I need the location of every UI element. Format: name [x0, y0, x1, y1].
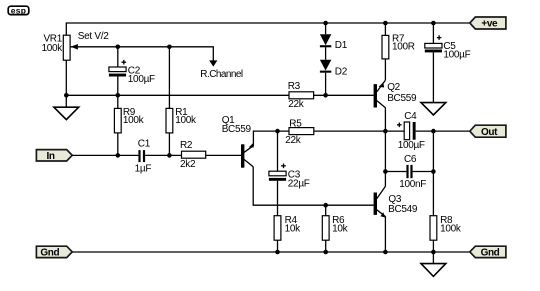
svg-text:BC549: BC549: [388, 204, 418, 215]
svg-text:R3: R3: [288, 81, 301, 92]
svg-text:10k: 10k: [332, 224, 349, 235]
diode D1: [320, 23, 348, 51]
node: C5 top on +ve rail: [431, 21, 436, 26]
svg-text:100k: 100k: [175, 115, 197, 126]
resistor R7: [382, 23, 415, 80]
svg-text:100nF: 100nF: [399, 179, 426, 190]
svg-text:Gnd: Gnd: [481, 247, 500, 258]
node: R1 bottom on input line: [167, 153, 172, 158]
wire: Q3 emitter to ground rail: [384, 216, 386, 252]
svg-text:esp: esp: [11, 5, 27, 15]
resistor R1: [166, 47, 197, 156]
svg-text:C6: C6: [404, 154, 417, 165]
node: R6 bottom on ground rail: [323, 250, 328, 255]
svg-text:C4: C4: [404, 111, 417, 122]
ground (below C5): [421, 103, 446, 115]
node: Q3 emitter on ground rail: [383, 250, 388, 255]
ground (below VR1): [54, 95, 79, 119]
svg-text:100k: 100k: [440, 224, 462, 235]
node: R9 bottom on input line: [116, 153, 121, 158]
node: R4 bottom on ground rail: [275, 250, 280, 255]
svg-text:100k: 100k: [123, 115, 145, 126]
terminal Out: [470, 125, 506, 138]
wire: bias line (R3 to Q2 base): [314, 94, 374, 96]
svg-text:100µF: 100µF: [398, 140, 425, 151]
node: C3 top junction: [275, 129, 280, 134]
resistor R5: [285, 118, 404, 146]
resistor R4: [274, 205, 301, 252]
node: R8 bottom on ground rail: [431, 250, 436, 255]
svg-text:1µF: 1µF: [135, 163, 152, 174]
capacitor C2: [109, 47, 155, 96]
svg-text:BC559: BC559: [222, 124, 252, 135]
wire: Q1 emitter riser: [253, 131, 289, 146]
node: wiper / C2 junction: [116, 45, 121, 50]
capacitor C5: [425, 23, 471, 103]
wire: bias line (left of R3): [66, 94, 289, 96]
resistor R6: [322, 205, 348, 252]
terminal +ve: [470, 17, 506, 30]
transistor Q2: [374, 80, 417, 108]
svg-text:R2: R2: [180, 140, 193, 151]
node: R9 top junction: [116, 93, 121, 98]
resistor R8: [430, 215, 462, 252]
terminal Gnd (right): [470, 246, 506, 258]
svg-text:100R: 100R: [392, 41, 415, 52]
svg-text:Q2: Q2: [387, 82, 400, 93]
ESP logo: [8, 5, 29, 15]
node: wiper / R1 junction: [167, 45, 172, 50]
resistor R3: [288, 81, 314, 110]
terminal In: [36, 150, 72, 162]
node: VR1 bottom junction: [64, 93, 69, 98]
node: R7 top on +ve rail: [383, 21, 388, 26]
svg-text:Out: Out: [481, 127, 498, 138]
svg-text:2k2: 2k2: [180, 159, 196, 170]
capacitor C3: [269, 131, 310, 205]
svg-text:22k: 22k: [288, 99, 305, 110]
svg-text:100µF: 100µF: [443, 49, 470, 60]
transistor Q3: [374, 186, 418, 217]
svg-text:+ve: +ve: [481, 19, 498, 30]
wire: Q1 collector to bias2 line: [253, 167, 373, 206]
wire: ground rail: [72, 251, 470, 253]
node: C6 left junction: [383, 169, 388, 174]
svg-text:R5: R5: [289, 118, 302, 129]
node: D2 / R3 junction: [323, 93, 328, 98]
transistor Q1: [222, 115, 254, 168]
svg-text:BC559: BC559: [387, 93, 417, 104]
capacitor C6: [385, 154, 433, 190]
resistor R9: [114, 95, 144, 155]
node: D1 top on +ve rail: [323, 21, 328, 26]
wire: out line riser to R8: [432, 131, 434, 216]
wire: input line: [72, 154, 138, 156]
resistor R2: [180, 140, 241, 170]
node: Q2 collector on out line: [383, 129, 388, 134]
svg-text:10k: 10k: [285, 224, 302, 235]
capacitor C4: [397, 111, 470, 151]
svg-text:D1: D1: [335, 40, 348, 51]
diode D2: [320, 47, 348, 95]
R.Channel arrow: [200, 60, 243, 80]
wire: wiper line: [70, 47, 213, 61]
ground (output, below rail): [421, 252, 446, 276]
node: C6 right junction: [431, 169, 436, 174]
capacitor C1: [135, 138, 182, 174]
svg-text:100k: 100k: [42, 43, 64, 54]
node: C4 right / C6 right riser junction: [431, 129, 436, 134]
svg-text:100µF: 100µF: [128, 74, 155, 85]
svg-text:Gnd: Gnd: [40, 247, 59, 258]
svg-text:In: In: [47, 151, 55, 162]
wire: VR1 top riser to +ve rail: [66, 23, 469, 35]
svg-text:C1: C1: [138, 138, 151, 149]
svg-text:Set V/2: Set V/2: [78, 31, 109, 42]
svg-text:R.Channel: R.Channel: [200, 69, 243, 80]
node: R6 top junction: [323, 203, 328, 208]
wire: Q2 collector down to Q3 collector: [384, 108, 386, 187]
terminal Gnd (left): [36, 246, 72, 258]
wire: VR1 bottom to bias line: [65, 60, 67, 95]
svg-text:22µF: 22µF: [288, 179, 310, 190]
potentiometer VR1: [42, 34, 78, 61]
svg-text:D2: D2: [335, 66, 348, 77]
svg-text:22k: 22k: [285, 135, 302, 146]
